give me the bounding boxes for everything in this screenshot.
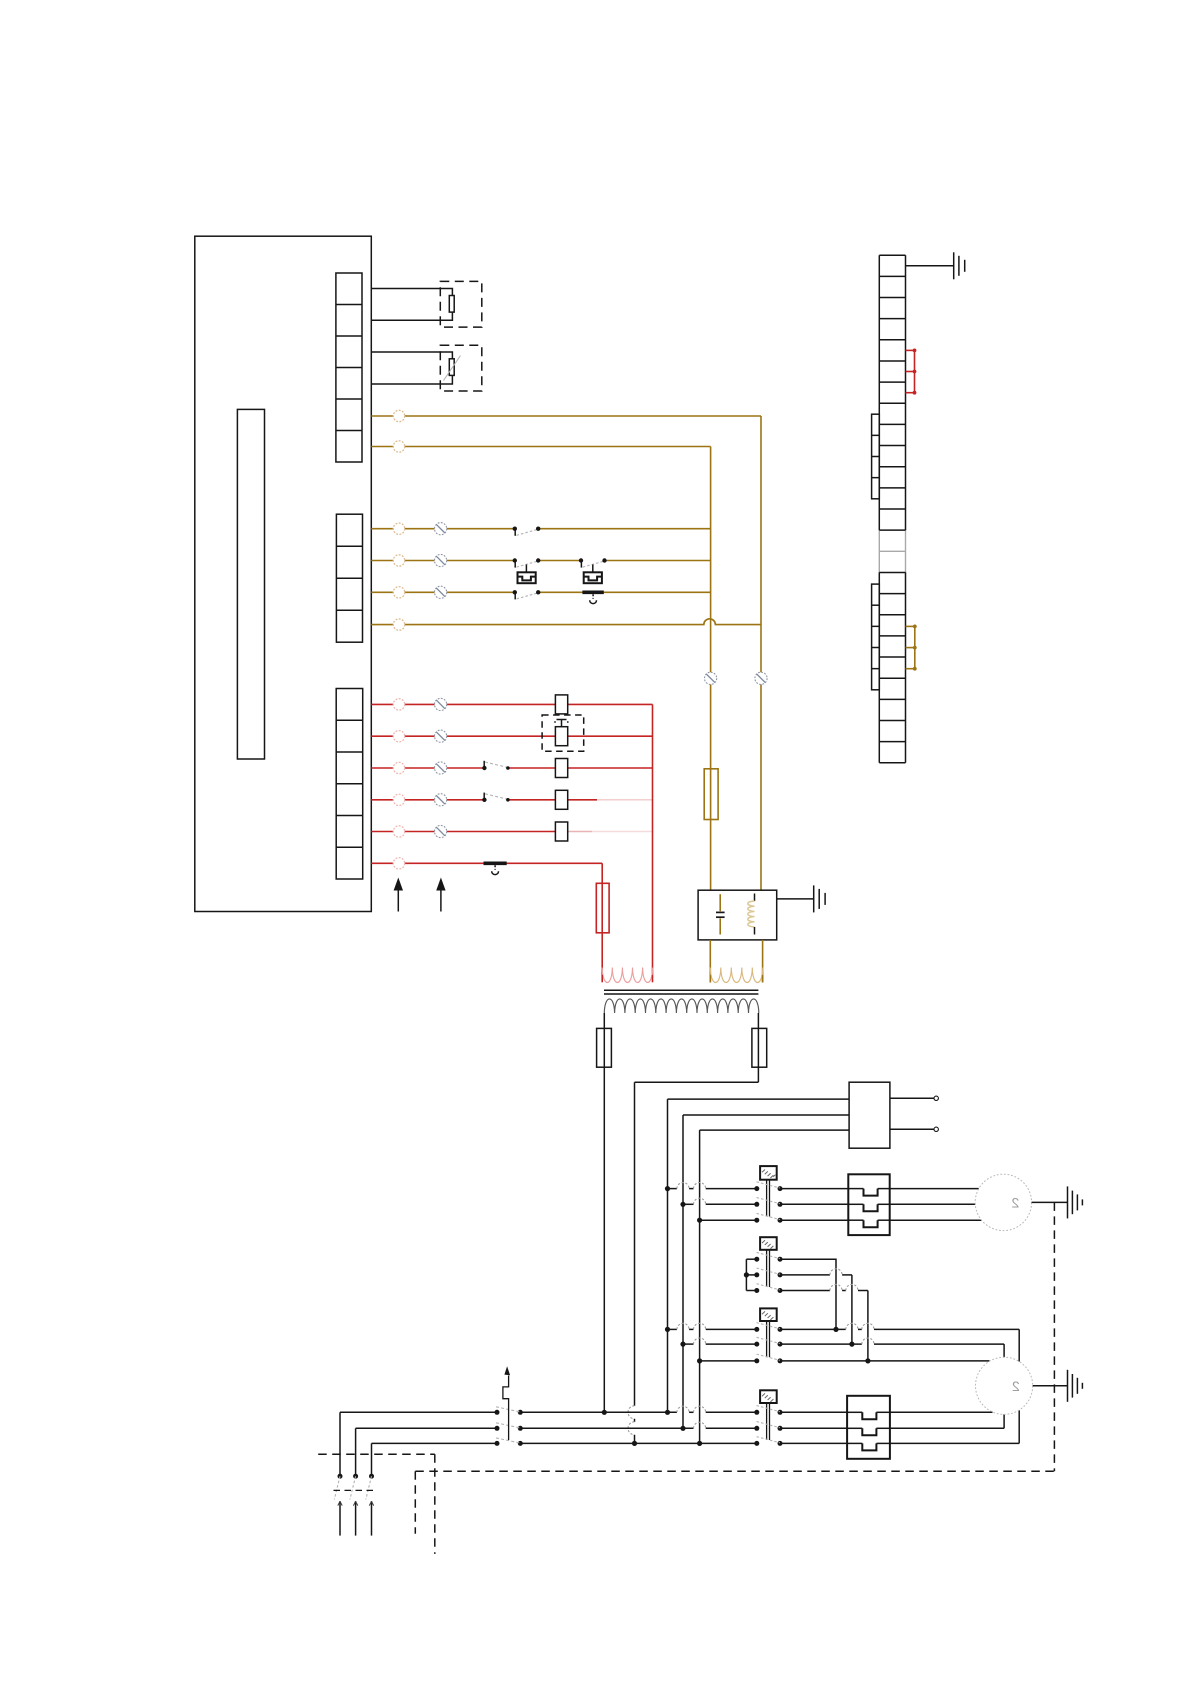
terminal circle <box>393 731 404 742</box>
test point (circle with slash) <box>435 586 447 598</box>
transformer core <box>604 990 758 994</box>
filter capacitor branch <box>716 894 725 934</box>
incoming supply lead 3 <box>369 1501 373 1535</box>
overload F6 element row1 <box>847 1412 890 1419</box>
contactor K2 linkage <box>767 1250 770 1287</box>
arrow marker 2 <box>436 878 445 912</box>
fuse F4 <box>752 1028 767 1067</box>
wires overload F5 to motor M1 <box>890 1189 982 1221</box>
contactor K4 linkage <box>767 1403 770 1440</box>
dashed enclosure thermal cutout <box>542 715 584 751</box>
pushbutton contact bar <box>582 592 603 603</box>
filter ground wire <box>777 898 814 900</box>
wire 24V row 5 (faded) <box>371 831 652 833</box>
sub terminal block lower <box>872 584 880 690</box>
contactor K1 linkage <box>767 1180 770 1217</box>
supply disconnect contacts <box>334 1474 375 1500</box>
control unit A1 enclosure <box>195 236 371 911</box>
contactor K4 hatched box <box>760 1390 777 1403</box>
SECTION: controller <box>195 236 446 911</box>
terminal strip X10 left side <box>878 255 880 763</box>
socket pin terminal <box>934 1127 938 1131</box>
test point (circle with slash) <box>435 762 447 774</box>
overload F6 element row2 <box>847 1428 890 1435</box>
wire K3 row1 feed with hops <box>668 1323 757 1329</box>
switch S5 <box>482 761 510 770</box>
test point on V1 <box>705 672 717 684</box>
test point (circle with slash) <box>435 554 447 566</box>
wire supply row 6 <box>371 862 602 864</box>
dashed enclosure sensor B1 <box>440 281 482 327</box>
wire analog out 2 <box>371 446 710 448</box>
orange jumper bracket <box>906 625 917 671</box>
test point (circle with slash) <box>435 730 447 742</box>
incoming supply lead 2 <box>353 1501 357 1535</box>
relay coil K14 <box>555 790 567 809</box>
contactor K4 contacts <box>754 1406 782 1446</box>
contactor K1 contacts <box>754 1182 782 1223</box>
connector block X1 (6 pins) <box>336 273 362 462</box>
wire K2 row2 to drop with hop <box>780 1269 852 1344</box>
wire K1 row1 with hops <box>668 1183 757 1189</box>
wire K1 row2 with hop <box>683 1198 757 1204</box>
phase feeder B <box>682 1115 684 1428</box>
wire overload F6 to motor bottom <box>890 1414 1004 1428</box>
fuse F2 (red) <box>596 883 609 933</box>
connector block X2 (4 pins) <box>336 514 362 642</box>
SECTION: thermistors <box>371 281 482 391</box>
junction dots on feeders <box>602 1410 703 1446</box>
terminal circle <box>393 555 404 566</box>
line filter box <box>698 890 777 940</box>
resistor R2 (temperature sensor) <box>449 359 454 376</box>
wire K2 row1 to drop <box>780 1259 836 1329</box>
phase feeder C <box>699 1130 701 1443</box>
wire 24V row 1 <box>371 703 652 705</box>
wire K3 row2 feed with hop <box>683 1338 757 1344</box>
wire K2 row3 to drop with hops <box>780 1284 868 1361</box>
SECTION: transformer <box>597 968 767 1083</box>
wire overload F6 to motor lower left <box>890 1411 993 1413</box>
connector block X3 (6 pins) <box>336 689 363 880</box>
socket outlet X20 <box>849 1082 890 1148</box>
filter inductor branch <box>748 894 755 935</box>
primary orange terminals <box>710 975 762 982</box>
earth wire from terminal 1 <box>906 265 954 267</box>
ground symbol <box>954 252 965 279</box>
wire K3 row2 to motor top with hop <box>780 1338 1004 1357</box>
contactor K3 linkage <box>767 1321 770 1357</box>
relay coil K15 <box>555 822 567 841</box>
junction dots K1 feed <box>665 1186 702 1223</box>
terminal circle <box>393 619 404 630</box>
wire L1 row <box>340 1406 757 1412</box>
wire sensor row 1 <box>371 528 710 530</box>
limit switch S3 <box>579 558 607 572</box>
SECTION: mains <box>318 1202 1054 1554</box>
overload relay F5 box <box>848 1174 889 1235</box>
red feeder down to fuse <box>601 863 603 975</box>
wire sensor row 4 with hop <box>371 619 761 625</box>
terminal circle <box>393 762 404 773</box>
wire K3 row3 to motor top left <box>780 1358 990 1363</box>
SECTION: rightstack <box>872 252 965 763</box>
contactor K3 hatched box <box>760 1308 777 1321</box>
wire K3 row1 to motor top right with hops <box>780 1323 1019 1361</box>
secondary terminals <box>604 1013 758 1082</box>
terminal circle <box>393 410 404 421</box>
control unit label window <box>237 409 264 759</box>
sub terminal block upper <box>872 414 880 499</box>
orange wire filter to transformer left <box>709 940 711 983</box>
SECTION: distribution <box>602 1067 939 1446</box>
limit switch actuator box <box>518 572 536 583</box>
ground symbol <box>814 885 825 912</box>
switch S6 <box>482 793 510 802</box>
red jumper bracket <box>906 349 917 395</box>
wire thermistor R2 return to pin4 <box>371 375 452 384</box>
wires K1 to overload F5 <box>780 1189 848 1221</box>
motor M2 earth wire <box>1033 1385 1068 1387</box>
junction dots K3 feed <box>665 1327 702 1364</box>
transformer T1 secondary coil <box>604 999 758 1013</box>
wire fuse F4 jog <box>635 1081 759 1083</box>
wire feeder A to socket <box>668 1098 850 1100</box>
primary red terminals <box>602 975 652 982</box>
wire K1 row3 <box>700 1219 757 1221</box>
wire analog out 1 <box>371 415 761 417</box>
SECTION: rednet <box>371 695 652 975</box>
wire 24V row 2 <box>371 735 652 737</box>
wire thermistor R1 return to pin2 <box>371 312 452 320</box>
thermistor R2 diagonal mark <box>444 356 461 381</box>
wire sensor row 3 <box>371 591 710 593</box>
svg-text:2: 2 <box>1012 1378 1020 1394</box>
switch S1 <box>513 527 541 536</box>
terminal circle <box>393 699 404 710</box>
test point (circle with slash) <box>435 825 447 837</box>
overload relay F6 box <box>847 1396 890 1459</box>
wire feeder C to socket <box>700 1129 850 1131</box>
orange wire filter to transformer right <box>762 940 764 983</box>
red bus vertical <box>652 704 654 975</box>
mains drop L3 <box>371 1443 373 1476</box>
contactor K1 hatched box <box>760 1166 777 1180</box>
wire feeder B to socket <box>683 1114 849 1116</box>
wire pin1 to thermistor R1 <box>371 289 452 296</box>
mains drop L2 <box>355 1428 357 1476</box>
wire overload F6 to motor lower right <box>890 1410 1019 1443</box>
overload F6 element row3 <box>847 1443 890 1450</box>
wire sensor row 2 <box>371 560 710 562</box>
wire vertical to L3 with hops <box>628 1082 635 1443</box>
incoming supply lead 1 <box>338 1501 342 1535</box>
test point (circle with slash) <box>435 523 447 535</box>
ground symbol <box>1068 1370 1083 1402</box>
SECTION: orangenet <box>371 410 825 982</box>
contactor K2 star bracket <box>744 1259 757 1290</box>
terminal strip X10 right side <box>905 255 907 763</box>
transformer T1 primary coil red <box>602 968 652 983</box>
socket pin wire N <box>890 1128 934 1130</box>
wire L2 row <box>356 1422 757 1428</box>
phase feeder A <box>667 1099 669 1412</box>
overload F5 element row2 <box>848 1204 889 1211</box>
wire pin3 to thermistor R2 <box>371 352 452 359</box>
terminal circle <box>393 794 404 805</box>
switch S4 <box>513 590 541 599</box>
test point (circle with slash) <box>435 794 447 806</box>
orange bus V1 <box>710 447 712 891</box>
orange bus V2 <box>760 416 762 890</box>
mains drop L1 <box>339 1412 341 1476</box>
arrow marker 1 <box>394 878 403 912</box>
resistor R1 (temperature sensor) <box>449 296 454 313</box>
overload F5 element row3 <box>848 1220 889 1227</box>
SECTION: motor2 <box>665 1237 1083 1459</box>
wire L3 row <box>372 1442 757 1444</box>
contactor K2 contacts <box>754 1252 782 1293</box>
main switch Q1 contacts <box>495 1407 523 1446</box>
svg-text:2: 2 <box>1011 1194 1019 1210</box>
fuse F1 (orange) <box>704 769 718 820</box>
terminal strip partitions <box>879 255 905 763</box>
dashed cabinet boundary upper <box>318 1454 435 1554</box>
motor M2 <box>976 1357 1033 1414</box>
wires K4 to overload F6 <box>780 1412 847 1443</box>
motor M1 earth wire <box>1032 1201 1068 1203</box>
wire K3 row3 feed <box>700 1360 757 1362</box>
relay coil K13 <box>555 759 567 778</box>
terminal circle <box>393 441 404 452</box>
terminal circle <box>393 587 404 598</box>
dashed enclosure sensor B2 <box>440 345 482 391</box>
thermal element mark <box>554 720 569 727</box>
overload F5 element row1 <box>848 1189 889 1196</box>
pushbutton contact bar <box>484 863 507 874</box>
limit switch S2 <box>513 558 541 572</box>
fuse F3 <box>597 1028 612 1067</box>
test point (circle with slash) <box>435 698 447 710</box>
socket pin wire L <box>890 1097 934 1099</box>
test point on V2 <box>755 672 767 684</box>
ground symbol <box>1068 1186 1083 1218</box>
socket pin terminal <box>934 1096 938 1100</box>
relay coil K11 <box>555 695 567 714</box>
relay coil K12 <box>555 727 567 746</box>
motor M1 <box>975 1174 1031 1230</box>
wire 24V row 3 <box>371 767 652 769</box>
main switch Q1 operator linkage <box>503 1366 510 1440</box>
contactor K3 contacts <box>754 1323 782 1364</box>
terminal circle <box>393 858 404 869</box>
terminal circle <box>393 826 404 837</box>
limit switch actuator box <box>584 572 602 583</box>
terminal circle <box>393 523 404 534</box>
wire fuse F3 to phase row L1 <box>603 1067 605 1412</box>
contactor K2 hatched box <box>760 1237 777 1250</box>
transformer T1 primary coil orange <box>710 968 763 983</box>
wire 24V row 4 <box>371 799 652 801</box>
SECTION: motor1 <box>665 1166 1083 1235</box>
dashed enclosure boundary <box>415 1202 1054 1533</box>
